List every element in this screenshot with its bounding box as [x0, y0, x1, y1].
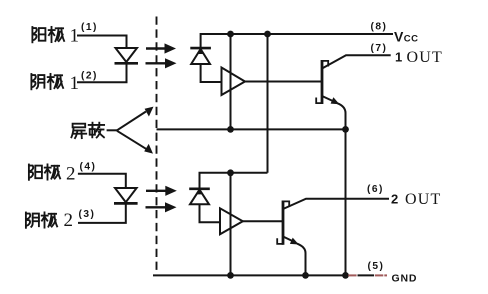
- svg-text:GND: GND: [392, 273, 418, 285]
- svg-text:2: 2: [391, 192, 398, 207]
- svg-text:OUT: OUT: [405, 191, 441, 208]
- svg-text:OUT: OUT: [407, 49, 443, 66]
- svg-text:(3): (3): [79, 209, 96, 220]
- svg-text:V: V: [394, 29, 404, 45]
- svg-text:(5): (5): [368, 261, 385, 272]
- svg-text:(4): (4): [80, 162, 97, 173]
- svg-text:2: 2: [66, 164, 76, 185]
- svg-text:1: 1: [395, 49, 402, 64]
- svg-text:1: 1: [70, 73, 80, 94]
- svg-text:(2): (2): [81, 71, 98, 82]
- svg-text:(7): (7): [371, 43, 388, 54]
- svg-text:(1): (1): [81, 22, 98, 33]
- svg-text:2: 2: [64, 210, 74, 231]
- svg-text:(8): (8): [371, 22, 388, 33]
- svg-text:CC: CC: [404, 34, 419, 45]
- svg-text:(6): (6): [367, 184, 384, 195]
